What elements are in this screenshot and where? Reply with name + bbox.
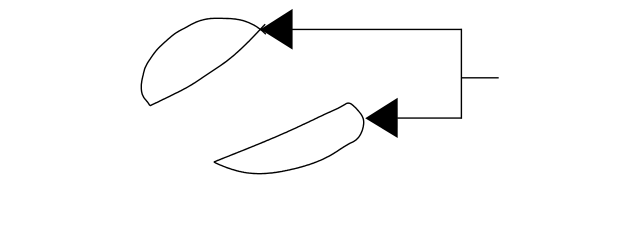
right vertical wire [460,29,462,119]
bottom wire [398,117,462,119]
left loop (petal spline) [141,18,265,105]
top arrowhead [260,9,292,50]
bottom loop (crescent spline) [214,103,364,174]
right stub [461,77,498,79]
bottom arrowhead [365,98,398,138]
top wire [292,28,461,30]
